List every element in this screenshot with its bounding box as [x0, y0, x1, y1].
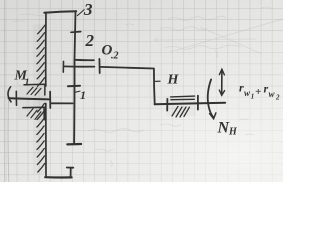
bearing bottom line	[23, 107, 45, 119]
input shaft tick	[15, 91, 17, 105]
central vertical shaft	[73, 60, 75, 144]
leader to label H	[156, 80, 161, 82]
wall hatching upper	[37, 25, 45, 86]
svg-text:2: 2	[275, 94, 280, 102]
grid: vertical lines	[6, 0, 272, 182]
bearing top hatches	[27, 87, 41, 95]
arrowhead up	[219, 69, 224, 75]
H bearing right tick	[197, 96, 199, 110]
faint margin line left	[3, 0, 5, 182]
gear 3 top line	[44, 11, 76, 12]
svg-text:H: H	[167, 73, 180, 88]
gear 2 right tick (at O2)	[98, 59, 100, 73]
leader to label 3	[77, 10, 84, 16]
carrier H vertical line	[153, 69, 156, 105]
carrier H horizontal line	[100, 67, 154, 69]
svg-text:1: 1	[25, 78, 30, 89]
wall hatching lower	[37, 103, 45, 172]
gear 3 vertical line	[75, 11, 76, 59]
N_H curved arrow	[208, 79, 214, 117]
leader to label 1	[75, 91, 80, 92]
bearing cap top line	[24, 84, 45, 95]
arrowhead down	[219, 90, 224, 95]
wall (fixed frame) vertical line	[45, 12, 47, 176]
shaft bottom T-bar	[67, 143, 81, 146]
frame bottom line	[45, 176, 71, 178]
svg-text:1: 1	[80, 88, 86, 102]
svg-text:3: 3	[83, 0, 93, 19]
H bearing cap lines	[171, 96, 195, 100]
dimension arrow (r_w1+r_w2) vertical	[221, 69, 223, 95]
faint crease lower-left	[7, 100, 10, 182]
gear 2 left tick	[62, 61, 64, 72]
input shaft line	[9, 98, 50, 99]
pencil smudge along wall and bearings	[18, 24, 196, 174]
svg-text:H: H	[228, 127, 238, 138]
input shaft M1: curved end arc	[8, 87, 11, 102]
frame bottom hook (bracket)	[67, 168, 74, 178]
grid: horizontal lines	[0, 8, 283, 175]
gear 1 mesh line	[52, 102, 73, 104]
gear 2 mesh line	[64, 65, 95, 67]
N_H arrowhead	[210, 113, 216, 119]
gear 3 mesh tick	[71, 31, 81, 34]
H bearing left tick	[166, 99, 168, 111]
carrier axis line at H	[155, 103, 226, 105]
shaft right tick	[49, 92, 51, 108]
svg-text:w: w	[269, 89, 276, 99]
svg-text:.2: .2	[111, 51, 119, 62]
svg-text:+: +	[255, 86, 261, 98]
paper background	[0, 0, 283, 182]
gear 2 step line	[75, 59, 94, 61]
bearing bottom hatches	[27, 109, 41, 120]
H bearing hatches	[172, 106, 189, 117]
washed out bottom-right lighting	[0, 0, 283, 182]
faint pencil scribbles (bleed-through)	[12, 7, 283, 167]
svg-text:2: 2	[85, 31, 95, 50]
gear 1 tick	[68, 85, 80, 88]
svg-text:1: 1	[251, 93, 255, 101]
